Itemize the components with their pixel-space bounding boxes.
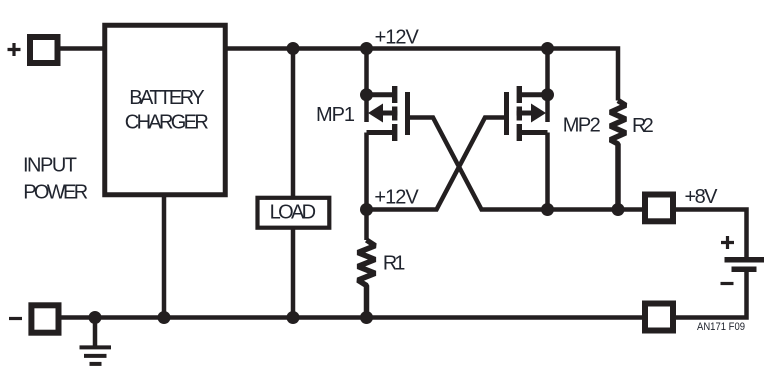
svg-text:R1: R1 xyxy=(383,253,406,275)
svg-text:MP1: MP1 xyxy=(316,104,355,126)
svg-text:LOAD: LOAD xyxy=(270,201,317,223)
svg-text:POWER: POWER xyxy=(23,182,88,204)
svg-text:CHARGER: CHARGER xyxy=(125,112,209,134)
svg-text:+8V: +8V xyxy=(685,186,719,208)
svg-text:+12V: +12V xyxy=(374,187,419,209)
svg-text:BATTERY: BATTERY xyxy=(129,87,205,109)
svg-text:R2: R2 xyxy=(632,115,654,137)
svg-text:MP2: MP2 xyxy=(563,115,601,137)
svg-text:INPUT: INPUT xyxy=(23,155,77,177)
svg-text:+12V: +12V xyxy=(375,27,420,49)
svg-text:AN171 F09: AN171 F09 xyxy=(697,321,745,333)
